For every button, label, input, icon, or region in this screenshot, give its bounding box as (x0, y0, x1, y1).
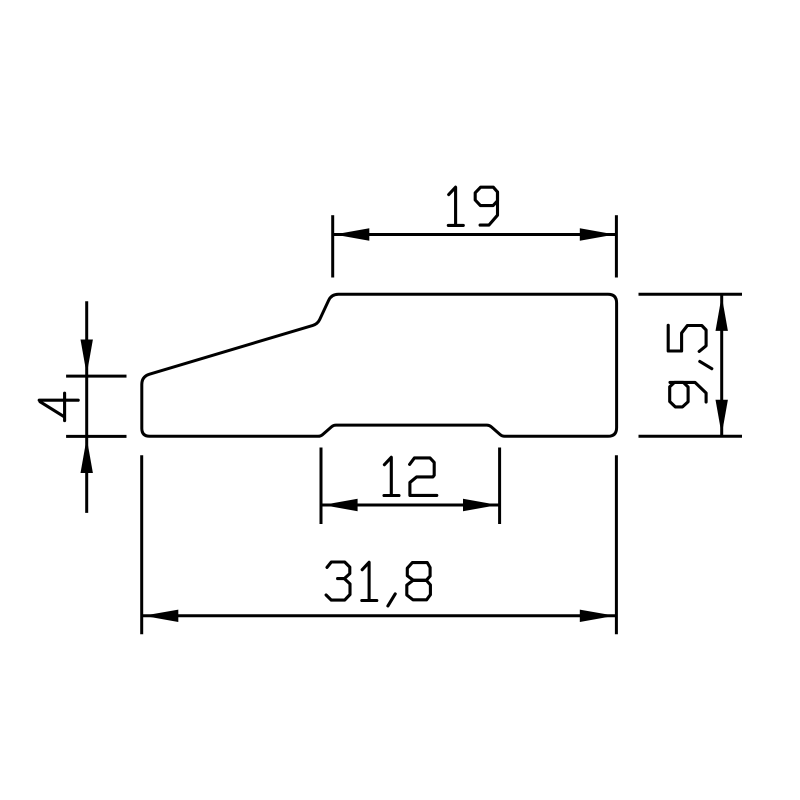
profile outline of moulding cross-section (142, 294, 617, 436)
dimension 4: arrowhead top (pointing down) (81, 340, 93, 375)
dimension 4: dimension line (85, 301, 88, 513)
dimension 31,8: arrowhead left (143, 610, 178, 622)
dimension 4: extension tick top (66, 375, 126, 378)
dimension 12: arrowhead right (463, 499, 498, 511)
dimension 9,5: extension line top (639, 293, 743, 296)
dimension 12: extension line left (320, 448, 323, 525)
dimension 12: dimension line (321, 504, 500, 507)
dimension 4: extension tick bottom (66, 435, 126, 438)
dimension 9,5: dimension line (720, 294, 723, 436)
dimension 12: value label "12" (384, 457, 437, 495)
dimension 31,8: arrowhead right (580, 610, 615, 622)
dimension 9,5: arrowhead bottom (716, 400, 728, 435)
dimension 19: extension line right (615, 215, 618, 277)
dimension 4: arrowhead bottom (pointing up) (81, 438, 93, 473)
dimension 31,8: dimension line (142, 614, 617, 617)
dimension 19: arrowhead left (334, 228, 369, 240)
dimension 19: dimension line (333, 233, 617, 236)
dimension 19: extension line left (331, 215, 334, 277)
dimension 19: arrowhead right (580, 228, 615, 240)
dimension 12: arrowhead left (323, 499, 358, 511)
dimension 19: value label "19" (448, 187, 497, 225)
dimension 9,5: value label "9,5" (rotated) (668, 325, 712, 407)
dimension 9,5: arrowhead top (716, 296, 728, 331)
dimension 9,5: extension line bottom (639, 435, 743, 438)
dimension 12: extension line right (498, 448, 501, 525)
dimension 31,8: value label "31,8" (326, 562, 430, 606)
dimension 31,8: extension line left (140, 455, 143, 634)
dimension 31,8: extension line right (615, 455, 618, 634)
dimension 4: value label "4" (rotated) (39, 393, 78, 420)
